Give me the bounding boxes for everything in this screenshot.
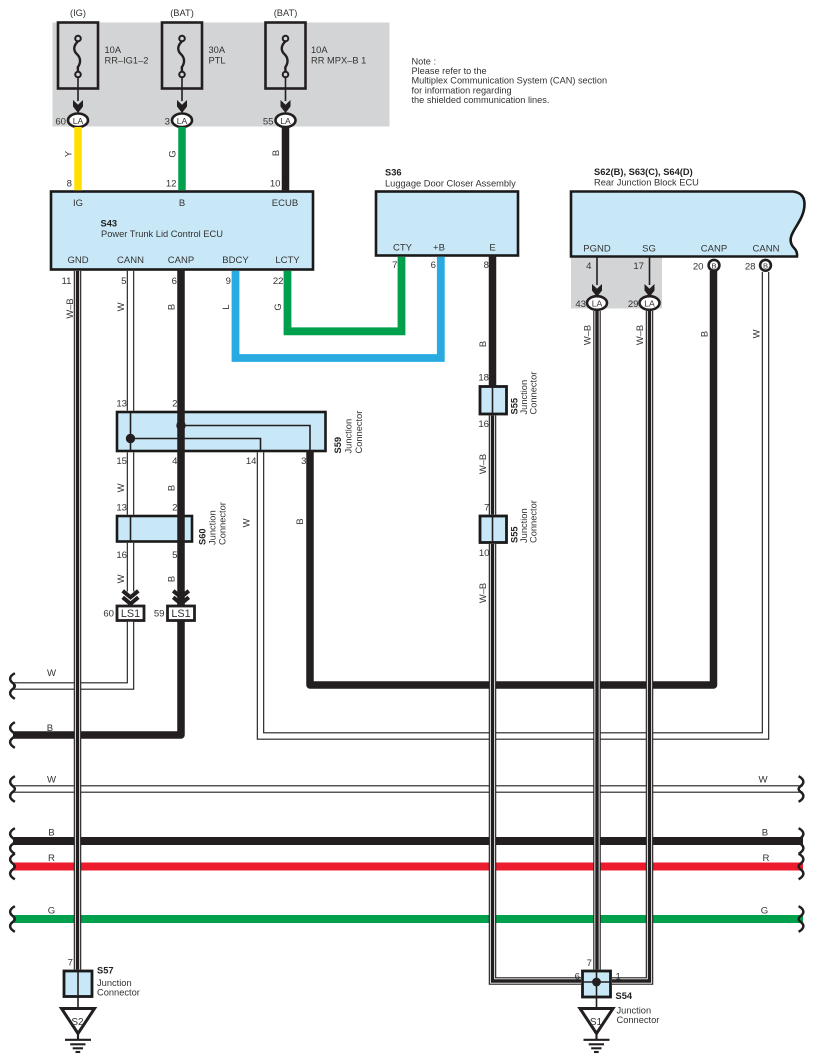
S54 internal cross wires: [596, 971, 598, 997]
junction connector S55 lower box: [480, 516, 507, 543]
svg-text:E: E: [489, 243, 495, 254]
wire labels below S43: [64, 298, 75, 318]
svg-text:Note :: Note :: [412, 57, 437, 67]
bus wire R (horizontal, full width): [13, 863, 803, 871]
svg-text:B: B: [179, 198, 185, 209]
svg-text:for information regarding: for information regarding: [412, 85, 512, 95]
svg-text:43: 43: [575, 299, 586, 310]
wire B from LS1-59 down and left to edge break: [13, 621, 181, 736]
svg-text:W: W: [751, 329, 762, 338]
svg-text:R: R: [763, 853, 770, 864]
svg-text:30A: 30A: [209, 45, 226, 55]
S55 upper internal wire: [492, 387, 494, 415]
svg-text:W–B: W–B: [64, 298, 75, 318]
S54 junction dot: [592, 978, 601, 987]
wire label G: [167, 150, 178, 157]
svg-text:6: 6: [575, 972, 580, 983]
svg-text:5: 5: [121, 276, 126, 287]
connector 3 LA: [165, 114, 192, 128]
svg-text:Connector: Connector: [218, 502, 228, 545]
svg-text:Connector: Connector: [617, 1015, 660, 1025]
svg-text:8: 8: [484, 260, 489, 271]
svg-text:7: 7: [68, 958, 73, 969]
svg-text:BDCY: BDCY: [222, 255, 249, 266]
ground symbol S2: [65, 1034, 91, 1053]
S59 junction dot on CANP wire: [176, 421, 185, 430]
svg-text:16: 16: [478, 419, 489, 430]
svg-text:5: 5: [172, 550, 177, 561]
svg-text:4: 4: [586, 261, 592, 272]
wire labels below S62: [582, 325, 593, 345]
svg-text:4: 4: [172, 456, 178, 467]
svg-text:CANN: CANN: [753, 244, 780, 255]
svg-text:6: 6: [172, 276, 177, 287]
arrow from PGND to LA43: [592, 257, 602, 298]
svg-text:B: B: [47, 723, 53, 734]
svg-text:Multiplex Communication System: Multiplex Communication System (CAN) sec…: [412, 76, 608, 86]
svg-text:S57: S57: [97, 966, 114, 976]
svg-text:RR–IG1–2: RR–IG1–2: [105, 56, 149, 66]
svg-text:S59: S59: [333, 437, 343, 454]
svg-text:60: 60: [103, 609, 114, 620]
svg-text:7: 7: [392, 260, 397, 271]
svg-text:13: 13: [116, 503, 127, 514]
connector B circle at CANP pin20: [709, 260, 720, 271]
S60 label: [198, 502, 228, 545]
svg-text:14: 14: [246, 456, 257, 467]
junction connector S55 upper box: [480, 387, 507, 415]
svg-text:S36: S36: [385, 168, 402, 178]
svg-text:W: W: [758, 775, 768, 786]
break symbol left of W stub: [10, 673, 15, 699]
wire label Y: [63, 150, 74, 157]
svg-text:W–B: W–B: [477, 583, 488, 603]
svg-text:7: 7: [484, 503, 489, 514]
svg-text:L: L: [220, 304, 231, 309]
svg-text:16: 16: [116, 550, 127, 561]
svg-text:Please refer to the: Please refer to the: [412, 66, 487, 76]
wire W loop: CANN down, left, up to S59 pin14: [261, 272, 766, 736]
svg-text:Y: Y: [63, 150, 74, 157]
wire B loop: S59 pin3 down, right, up to CANP: [310, 271, 714, 685]
wire labels between S59 and S60: [115, 483, 126, 492]
svg-text:ECUB: ECUB: [272, 198, 298, 209]
svg-text:CANP: CANP: [701, 244, 727, 255]
S59 internal branch to pin3: [181, 426, 310, 452]
svg-text:B: B: [48, 828, 54, 839]
svg-text:B: B: [166, 304, 177, 310]
connector 60 LA: [55, 114, 88, 128]
junction connector S57 box: [64, 971, 92, 997]
break symbol left of B stub: [10, 722, 15, 748]
svg-text:(BAT): (BAT): [170, 8, 194, 18]
svg-text:10A: 10A: [105, 45, 122, 55]
connector LS1 right box: [168, 606, 195, 621]
wire B thick from S43 CANP through S59 S60 to LS1-59: [177, 270, 185, 607]
svg-text:W: W: [241, 518, 252, 527]
svg-text:Connector: Connector: [97, 988, 140, 998]
arrow from SG to LA29: [645, 257, 655, 298]
gray background panel (PGND/SG connectors): [571, 257, 662, 309]
svg-text:GND: GND: [67, 255, 88, 266]
svg-text:Rear Junction Block ECU: Rear Junction Block ECU: [594, 178, 699, 188]
wire B from fuse LA55 to S43 ECUB: [282, 127, 290, 190]
svg-text:Junction: Junction: [208, 510, 218, 545]
svg-text:10: 10: [270, 179, 281, 190]
wire W from S60 pin16 to LS1-60: [127, 543, 135, 592]
ground symbol S1: [584, 1034, 610, 1053]
svg-text:W: W: [47, 775, 57, 786]
svg-text:the shielded communication lin: the shielded communication lines.: [412, 95, 550, 105]
break symbol left of R bus: [10, 854, 15, 880]
svg-text:SG: SG: [642, 244, 656, 255]
ground triangle S2: [62, 997, 95, 1034]
svg-text:28: 28: [745, 262, 756, 273]
svg-text:B: B: [763, 262, 768, 271]
svg-text:10A: 10A: [311, 45, 328, 55]
wire W-B from S43 GND down to S57: [74, 271, 82, 970]
svg-text:G: G: [272, 303, 283, 310]
svg-text:1: 1: [616, 972, 621, 983]
junction connector S54 box: [583, 971, 611, 997]
ground triangle S1: [580, 997, 613, 1034]
wire L from S43 BDCY to S36 +B: [236, 257, 441, 358]
svg-text:S43: S43: [101, 218, 118, 228]
svg-text:22: 22: [273, 276, 284, 287]
svg-text:B: B: [711, 262, 716, 271]
svg-text:S62(B), S63(C), S64(D): S62(B), S63(C), S64(D): [594, 167, 693, 177]
wire G from S43 LCTY to S36 CTY: [288, 257, 402, 331]
S55 lower internal wire: [492, 516, 494, 543]
svg-text:Junction: Junction: [519, 380, 529, 415]
wire labels right of S60: [241, 518, 252, 527]
svg-text:Connector: Connector: [354, 411, 364, 454]
wire W-B from S55 lower to S54 pin6: [493, 544, 582, 981]
svg-text:2: 2: [172, 503, 177, 514]
svg-text:+B: +B: [433, 243, 445, 254]
svg-text:W: W: [115, 302, 126, 311]
break symbol left of G bus: [10, 906, 15, 932]
svg-text:Connector: Connector: [529, 372, 539, 415]
svg-text:B: B: [477, 341, 488, 347]
svg-text:11: 11: [62, 276, 72, 287]
svg-text:Junction: Junction: [344, 419, 354, 454]
wire label B on E wire: [477, 341, 488, 347]
connector 43 LA: [575, 296, 607, 310]
gray background panel (fuse block): [53, 23, 390, 127]
wire W from LS1-60 down and left to edge break: [13, 622, 131, 686]
svg-text:W–B: W–B: [477, 454, 488, 474]
arrow from fuse F3 to connector LA: [281, 78, 291, 114]
note text: [412, 57, 608, 105]
svg-text:Junction: Junction: [519, 508, 529, 543]
svg-text:CTY: CTY: [393, 243, 413, 254]
svg-text:Luggage Door Closer Assembly: Luggage Door Closer Assembly: [385, 179, 516, 189]
svg-text:Junction: Junction: [617, 1006, 652, 1016]
svg-text:B: B: [294, 518, 305, 524]
arrow from fuse F2 to connector LA: [177, 78, 187, 114]
svg-text:LA: LA: [644, 299, 655, 309]
S59 internal branch to pin14: [131, 439, 261, 452]
svg-text:Junction: Junction: [97, 978, 132, 988]
wire Y from fuse LA60 to S43 IG: [74, 127, 82, 190]
svg-text:LS1: LS1: [171, 608, 190, 620]
svg-text:59: 59: [154, 609, 165, 620]
svg-text:Connector: Connector: [529, 500, 539, 543]
svg-text:Power Trunk Lid Control ECU: Power Trunk Lid Control ECU: [101, 229, 223, 239]
connector B circle at CANN pin28: [760, 260, 771, 271]
wire W-B between S55 connectors: [489, 416, 497, 515]
S59 internal wire pin13-15: [130, 412, 132, 451]
svg-text:LA: LA: [280, 116, 291, 126]
svg-text:LS1: LS1: [121, 608, 140, 620]
connector 29 LA: [628, 296, 660, 310]
break symbol left of B bus: [10, 828, 15, 854]
fuse F2 30A PTL: [162, 23, 202, 89]
svg-text:R: R: [48, 853, 55, 864]
svg-text:IG: IG: [73, 198, 83, 209]
svg-text:6: 6: [431, 260, 436, 271]
wire B from S36 E to S55: [489, 256, 497, 387]
svg-text:B: B: [166, 576, 177, 582]
svg-text:20: 20: [693, 262, 704, 273]
svg-text:LA: LA: [177, 116, 188, 126]
break symbol right of B bus: [799, 828, 804, 854]
svg-text:60: 60: [55, 116, 66, 127]
svg-text:9: 9: [226, 276, 231, 287]
svg-text:8: 8: [67, 179, 72, 190]
wire labels above LS1: [115, 574, 126, 583]
svg-text:LA: LA: [592, 299, 603, 309]
bus wire G (horizontal, full width): [13, 915, 803, 923]
svg-text:S1: S1: [590, 1017, 603, 1028]
svg-text:W–B: W–B: [582, 325, 593, 345]
connector LS1 left box: [117, 606, 144, 621]
Rear Junction Block ECU S62/S63/S64: [571, 192, 805, 257]
connector 55 LA: [263, 114, 296, 128]
break symbol right of W bus: [799, 776, 804, 802]
fuse F3 10A RR MPX-B 1: [266, 23, 306, 89]
break symbol right of R bus: [799, 854, 804, 880]
svg-text:S60: S60: [198, 528, 208, 545]
svg-text:17: 17: [633, 261, 644, 272]
svg-text:W–B: W–B: [634, 325, 645, 345]
wire W from S43 CANN to S59 pin13: [127, 271, 135, 411]
wire label B: [270, 150, 281, 156]
svg-text:(IG): (IG): [70, 8, 86, 18]
wire W from S59 pin15 to S60 pin13: [127, 452, 135, 514]
svg-text:B: B: [762, 828, 768, 839]
svg-text:PGND: PGND: [583, 244, 611, 255]
svg-text:B: B: [270, 150, 281, 156]
svg-text:W: W: [47, 668, 57, 679]
svg-text:S55: S55: [510, 526, 520, 543]
bus wire W (horizontal, full width): [13, 785, 803, 793]
ECU S43 Power Trunk Lid Control ECU: [51, 192, 313, 270]
svg-text:S2: S2: [71, 1017, 84, 1028]
S60 internal wire: [130, 516, 132, 542]
svg-text:13: 13: [116, 399, 127, 410]
svg-text:W: W: [115, 574, 126, 583]
svg-text:CANN: CANN: [117, 255, 144, 266]
svg-text:G: G: [761, 906, 768, 917]
break symbol left of W bus: [10, 776, 15, 802]
fuse F1 10A RR-IG1-2: [58, 23, 98, 89]
svg-text:LCTY: LCTY: [275, 255, 300, 266]
svg-text:PTL: PTL: [209, 56, 226, 66]
svg-text:S55: S55: [510, 398, 520, 415]
svg-text:RR MPX–B 1: RR MPX–B 1: [311, 56, 366, 66]
svg-text:G: G: [167, 150, 178, 157]
wire W-B from LA29 SG to S54 pin1: [612, 311, 650, 981]
S36 Luggage Door Closer Assembly: [376, 192, 518, 256]
junction connector S59 box: [117, 412, 326, 451]
svg-text:W: W: [115, 483, 126, 492]
svg-text:2: 2: [172, 399, 177, 410]
svg-text:10: 10: [479, 548, 490, 559]
arrow chevrons above LS1-60: [123, 591, 139, 604]
S59 junction dot on CANN wire: [126, 434, 135, 443]
arrow from fuse F1 to connector LA: [73, 78, 83, 114]
svg-text:G: G: [48, 906, 55, 917]
svg-text:(BAT): (BAT): [274, 8, 298, 18]
svg-text:15: 15: [116, 456, 127, 467]
svg-text:3: 3: [301, 456, 306, 467]
bus wire B (horizontal, full width): [13, 837, 803, 845]
svg-text:18: 18: [478, 373, 489, 384]
svg-text:B: B: [166, 485, 177, 491]
wire W-B from LA43 PGND to S54 pin7: [593, 311, 601, 970]
svg-text:LA: LA: [73, 116, 84, 126]
wire G from fuse LA3 to S43 B: [178, 127, 186, 190]
svg-text:12: 12: [166, 179, 177, 190]
svg-text:55: 55: [263, 116, 274, 127]
break symbol right of G bus: [799, 906, 804, 932]
S57 internal wire: [77, 971, 79, 997]
svg-text:3: 3: [165, 116, 170, 127]
S59 label: [333, 411, 364, 454]
svg-text:7: 7: [587, 958, 592, 969]
junction connector S60 box: [117, 516, 192, 542]
svg-text:29: 29: [628, 299, 639, 310]
svg-text:CANP: CANP: [168, 255, 194, 266]
arrow chevrons above LS1-59: [173, 591, 189, 604]
svg-text:B: B: [699, 331, 710, 337]
svg-text:S54: S54: [616, 991, 633, 1001]
